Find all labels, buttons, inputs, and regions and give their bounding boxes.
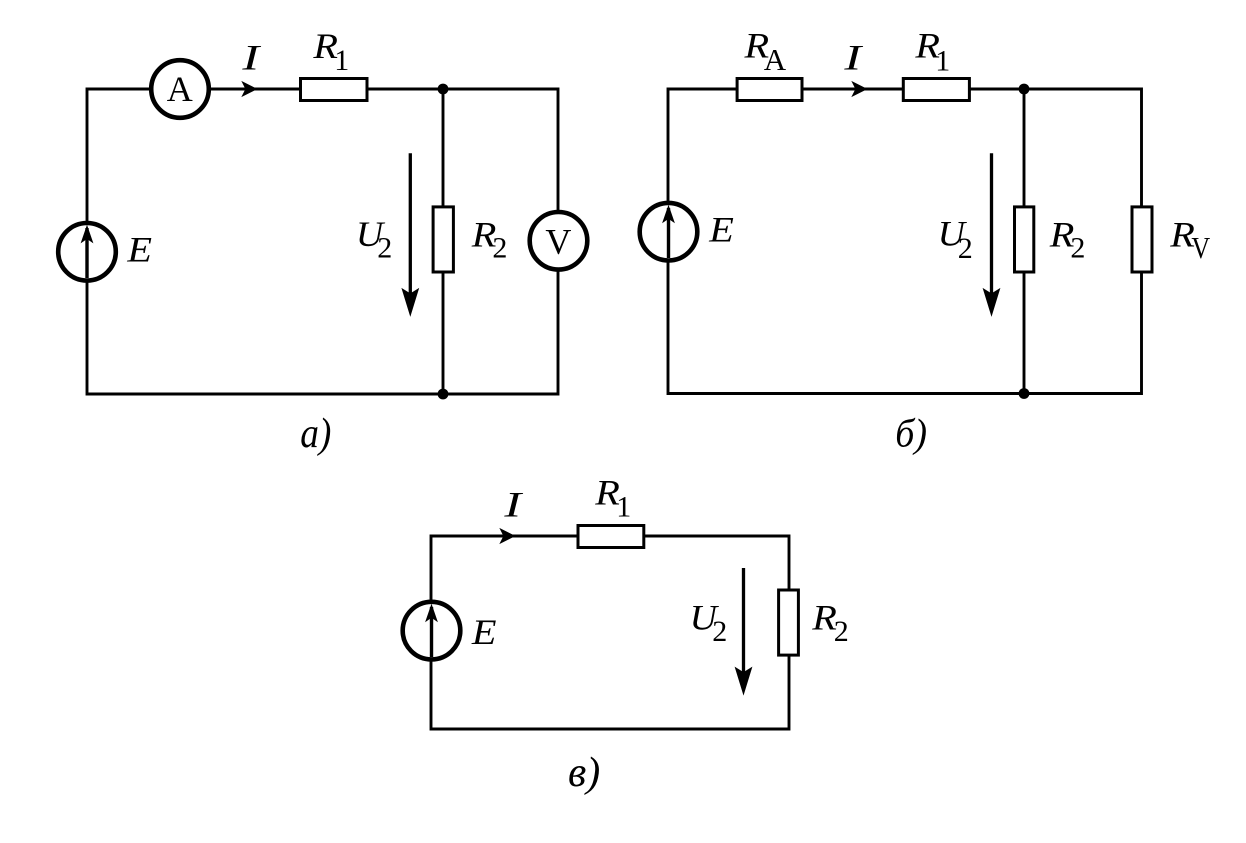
svg-text:E: E [708, 211, 734, 251]
svg-text:E: E [471, 613, 497, 653]
svg-text:2: 2 [712, 615, 727, 648]
svg-text:б): б) [895, 411, 927, 455]
svg-text:2: 2 [377, 231, 392, 264]
svg-text:I: I [241, 38, 262, 77]
svg-text:а): а) [300, 410, 331, 456]
svg-text:2: 2 [834, 615, 849, 648]
svg-text:A: A [167, 69, 193, 109]
svg-text:2: 2 [492, 231, 507, 264]
svg-text:V: V [1191, 231, 1210, 266]
svg-text:2: 2 [1070, 231, 1085, 264]
svg-text:E: E [126, 230, 152, 270]
svg-text:I: I [503, 485, 524, 524]
svg-text:2: 2 [958, 232, 973, 265]
svg-text:I: I [843, 38, 864, 77]
svg-text:в): в) [568, 750, 600, 796]
svg-text:1: 1 [334, 44, 349, 77]
svg-text:A: A [764, 42, 787, 77]
svg-text:V: V [545, 222, 571, 262]
svg-text:1: 1 [935, 44, 950, 77]
svg-text:1: 1 [616, 491, 631, 524]
